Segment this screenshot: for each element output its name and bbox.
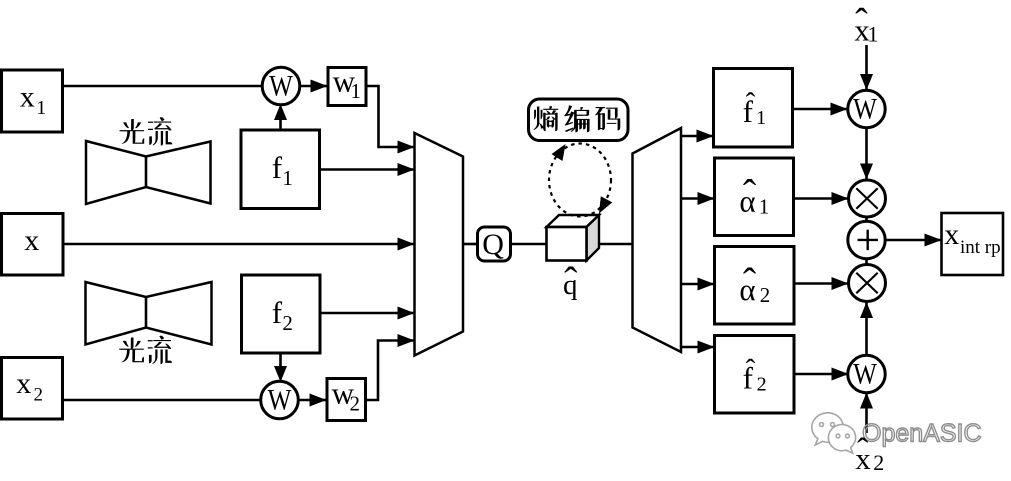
svg-text:2: 2 <box>282 311 293 335</box>
svg-text:ˆ: ˆ <box>743 171 757 216</box>
svg-text:ˆ: ˆ <box>743 260 757 305</box>
svg-text:f: f <box>272 295 283 330</box>
svg-text:int rp: int rp <box>960 237 1001 258</box>
svg-text:W: W <box>853 92 878 126</box>
svg-text:2: 2 <box>760 283 771 307</box>
svg-text:1: 1 <box>756 107 766 129</box>
svg-text:2: 2 <box>873 450 884 475</box>
svg-text:ˆ: ˆ <box>746 354 756 386</box>
svg-text:2: 2 <box>34 384 44 405</box>
svg-text:f: f <box>272 150 283 185</box>
svg-text:1: 1 <box>351 79 362 103</box>
svg-text:ˆ: ˆ <box>855 2 868 44</box>
svg-text:1: 1 <box>759 195 770 219</box>
svg-text:x: x <box>944 218 959 251</box>
svg-text:x: x <box>16 367 31 400</box>
svg-text:Q: Q <box>482 228 504 261</box>
svg-text:x: x <box>20 80 35 113</box>
svg-text:W: W <box>853 357 878 391</box>
svg-text:OpenASIC: OpenASIC <box>862 420 982 448</box>
svg-text:ˆ: ˆ <box>746 87 756 119</box>
svg-text:1: 1 <box>868 22 879 47</box>
svg-text:ˆ: ˆ <box>564 258 578 303</box>
svg-text:W: W <box>268 382 293 416</box>
svg-text:2: 2 <box>350 392 361 416</box>
svg-text:1: 1 <box>36 97 46 119</box>
svg-text:ˆ: ˆ <box>857 432 869 469</box>
svg-text:x: x <box>24 224 39 257</box>
svg-text:W: W <box>269 68 294 102</box>
svg-text:1: 1 <box>282 166 293 190</box>
svg-text:2: 2 <box>757 374 767 396</box>
